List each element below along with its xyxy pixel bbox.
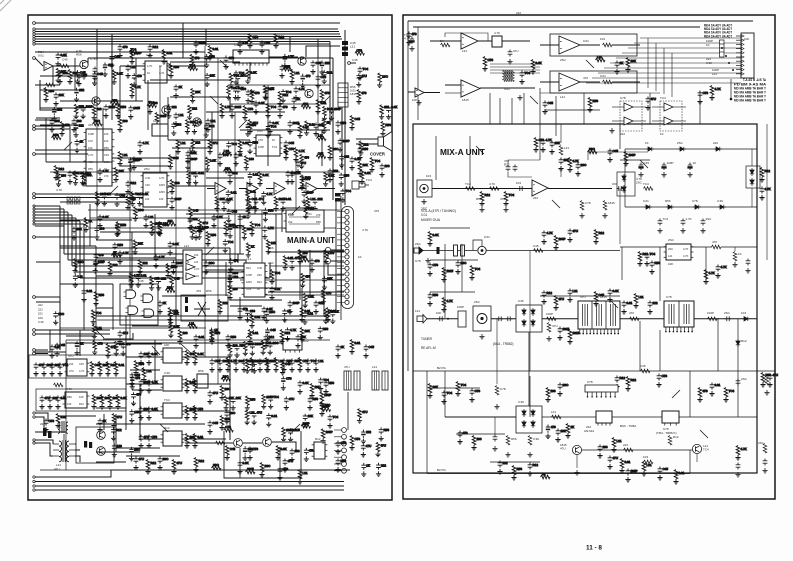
RC network: [441, 298, 452, 313]
wire: [80, 277, 270, 279]
MIX-A UNIT panel border: [403, 15, 775, 499]
RC network: [269, 287, 280, 301]
svg-text:47U: 47U: [139, 457, 145, 461]
diode D7: [718, 205, 726, 209]
RC network: [335, 459, 346, 473]
RC network: [128, 157, 140, 171]
svg-text:1K: 1K: [159, 64, 162, 68]
wire: [620, 159, 650, 161]
svg-text:103: 103: [175, 181, 180, 185]
RC network: [339, 173, 350, 187]
connector CN10: [741, 33, 754, 78]
RC network: [112, 243, 123, 257]
svg-text:3.3K: 3.3K: [217, 215, 223, 219]
wire: [63, 434, 65, 440]
ground: [92, 76, 97, 81]
RC network: [541, 231, 552, 245]
svg-text:1815: 1815: [159, 183, 165, 187]
svg-text:2SC: 2SC: [273, 341, 280, 345]
svg-text:C45: C45: [270, 328, 276, 332]
svg-text:3.3K: 3.3K: [198, 352, 204, 356]
op-amp U3: [247, 183, 258, 195]
capacitor C-in blob: [437, 247, 440, 254]
ground: [680, 228, 685, 233]
wire: [36, 301, 60, 303]
RC network: [171, 261, 183, 275]
svg-text:3.3K: 3.3K: [103, 215, 109, 219]
svg-text:BUF - TR6A: BUF - TR6A: [620, 424, 636, 428]
RC network: [565, 424, 574, 439]
wire: [435, 136, 437, 180]
svg-text:10K: 10K: [561, 429, 566, 433]
RC network: [297, 381, 308, 395]
RC network: [39, 396, 50, 410]
wire: [60, 100, 92, 102]
label: [484, 235, 490, 239]
svg-text:R56: R56: [363, 147, 369, 151]
svg-text:10K: 10K: [305, 329, 310, 333]
svg-text:10K: 10K: [79, 395, 84, 399]
svg-text:R56: R56: [76, 52, 82, 56]
label: [645, 141, 649, 145]
svg-text:10K: 10K: [631, 59, 636, 63]
RC network: [205, 157, 216, 172]
svg-text:L21: L21: [372, 365, 377, 369]
svg-text:2SC: 2SC: [724, 311, 731, 315]
wire: [604, 67, 741, 69]
RC network: [619, 459, 630, 474]
svg-text:4.7K: 4.7K: [267, 226, 273, 230]
RC network: [607, 456, 618, 470]
wire: [40, 89, 84, 91]
RC network: [457, 431, 467, 445]
ground: [507, 59, 512, 64]
svg-text:1K: 1K: [163, 301, 167, 305]
wire: [36, 261, 60, 263]
svg-text:470: 470: [315, 259, 320, 263]
AND gate G2: [143, 294, 153, 302]
wire: [185, 442, 233, 444]
wire: [317, 58, 319, 130]
RC network: [322, 106, 341, 121]
terminal T29: [33, 349, 36, 352]
svg-text:C45: C45: [285, 362, 291, 366]
svg-text:MIXER OUA: MIXER OUA: [421, 218, 441, 222]
wire: [140, 62, 142, 64]
svg-text:C78: C78: [692, 199, 698, 203]
svg-text:3.3K: 3.3K: [391, 105, 397, 109]
svg-text:1815: 1815: [159, 190, 165, 194]
svg-text:47U: 47U: [69, 369, 74, 373]
svg-text:0.01: 0.01: [288, 256, 294, 260]
RC network: [519, 71, 530, 85]
svg-text:COVER: COVER: [370, 152, 385, 157]
RC network: [277, 105, 287, 119]
svg-text:R56: R56: [341, 459, 347, 463]
wire: [170, 61, 240, 63]
resistor R16: [580, 201, 584, 211]
label: [518, 400, 524, 404]
op-amp U12: [559, 36, 580, 54]
terminal T2: [33, 28, 35, 30]
label: [533, 244, 539, 248]
junction: [728, 62, 730, 64]
svg-text:1K: 1K: [706, 43, 710, 47]
svg-text:4.7K: 4.7K: [715, 87, 721, 91]
RC network: [527, 463, 538, 477]
svg-text:C78: C78: [258, 138, 263, 142]
IC IC10: [65, 359, 90, 376]
RC network: [117, 152, 127, 167]
RC network: [300, 74, 311, 88]
svg-text:470: 470: [412, 32, 417, 36]
svg-text:3.3K: 3.3K: [328, 173, 334, 177]
RC network: [427, 293, 438, 307]
resistor R3: [54, 383, 64, 387]
svg-text:R56: R56: [344, 173, 350, 177]
wire: [490, 72, 540, 74]
RC network: [171, 460, 182, 475]
terminal T3: [33, 30, 35, 32]
RC network: [247, 172, 258, 186]
wire: [50, 171, 340, 173]
label: [706, 43, 710, 47]
wire: [413, 26, 700, 28]
IC IC14: [161, 403, 185, 418]
resistor R26: [708, 317, 718, 321]
RC network: [479, 192, 490, 207]
RC network: [245, 69, 256, 84]
wire: [35, 413, 48, 421]
capacitor C8: [658, 219, 663, 226]
label: [362, 228, 368, 232]
wire: [172, 147, 212, 149]
RC network: [177, 330, 187, 345]
terminal T32: [33, 416, 35, 418]
wire: [35, 225, 64, 227]
wire: [182, 23, 184, 58]
RC network: [47, 396, 57, 410]
RC network: [168, 311, 179, 325]
inductor L-T upper: [58, 421, 68, 433]
wire: [206, 111, 285, 113]
svg-text:MAIN-A UNIT: MAIN-A UNIT: [287, 235, 336, 245]
wire: [699, 93, 701, 124]
RC network: [289, 449, 299, 463]
svg-text:L21: L21: [617, 439, 622, 443]
wire: [66, 339, 330, 341]
wire: [182, 383, 230, 385]
IC IC11: [63, 392, 90, 408]
svg-text:47U: 47U: [177, 461, 183, 465]
wire: [335, 200, 337, 312]
terminal T12: [33, 128, 36, 131]
RC network: [575, 163, 587, 177]
resistor R19: [712, 245, 722, 249]
wire: [696, 454, 698, 462]
wire: [96, 407, 126, 409]
IC IC15: [161, 431, 185, 446]
ground: [479, 334, 484, 339]
svg-text:222: 222: [40, 422, 45, 426]
RC network: [709, 383, 720, 397]
svg-text:222: 222: [363, 142, 368, 146]
svg-text:470: 470: [136, 393, 141, 397]
RC network: [357, 409, 368, 424]
RC network: [297, 358, 308, 373]
RC network: [166, 104, 177, 118]
svg-text:0.01: 0.01: [243, 41, 249, 45]
svg-text:L21: L21: [647, 463, 652, 467]
svg-text:C78: C78: [587, 380, 593, 384]
svg-text:222: 222: [344, 155, 349, 159]
svg-text:100P: 100P: [199, 41, 206, 45]
wire: [35, 125, 70, 127]
RC network: [207, 391, 218, 405]
wire: [75, 218, 77, 272]
RC network: [188, 64, 198, 71]
wire: [120, 165, 170, 167]
RC network: [72, 259, 84, 274]
label: [513, 49, 519, 53]
svg-text:3.3K: 3.3K: [210, 158, 216, 162]
label: [184, 244, 189, 248]
RC network: [166, 219, 176, 226]
wire: [691, 246, 712, 248]
transistor pair Q-PP: [194, 302, 210, 316]
svg-text:10K: 10K: [173, 311, 178, 315]
svg-text:4.7K: 4.7K: [741, 447, 747, 451]
capacitor C2 electrolytic: [410, 37, 414, 45]
RC network: [125, 181, 136, 195]
label: [76, 49, 82, 56]
wire: [424, 92, 440, 94]
ground: [638, 172, 643, 177]
wire: [289, 223, 320, 225]
svg-text:222: 222: [288, 220, 293, 224]
label: [66, 387, 72, 391]
svg-text:103: 103: [233, 344, 238, 348]
RC network: [185, 156, 197, 170]
terminal T27: [33, 329, 36, 332]
RC network: [185, 120, 202, 135]
wire: [126, 383, 163, 385]
terminal T31: [33, 412, 35, 414]
terminal T30: [33, 352, 36, 355]
wire: [430, 40, 461, 42]
wire: [40, 75, 95, 77]
RC network: [97, 419, 106, 433]
RC network: [376, 463, 386, 477]
RC network: [105, 362, 116, 377]
svg-text:10K: 10K: [220, 197, 225, 201]
diode D9: [622, 185, 626, 193]
svg-text:C78: C78: [283, 467, 289, 471]
RC network: [611, 438, 621, 453]
RC network: [97, 215, 108, 229]
wire: [182, 356, 230, 358]
capacitor C15: [438, 316, 445, 321]
svg-text:1K: 1K: [660, 132, 664, 136]
label: [38, 303, 43, 307]
svg-text:R56: R56: [313, 397, 319, 401]
wire: [35, 223, 84, 225]
label: [660, 132, 664, 136]
RC network: [545, 388, 555, 403]
wire: [489, 93, 491, 124]
wire: [612, 183, 617, 185]
RC network: [52, 133, 62, 140]
RC network: [169, 197, 181, 211]
svg-text:C78: C78: [488, 58, 494, 62]
svg-text:C45: C45: [62, 57, 68, 61]
wire: [628, 47, 741, 49]
svg-text:0.01: 0.01: [253, 331, 259, 335]
RC network: [285, 171, 295, 185]
capacitor C5: [506, 165, 511, 172]
ground: [546, 336, 551, 341]
wire: [95, 246, 97, 330]
wire: [529, 251, 531, 291]
wire: [309, 250, 311, 296]
wire: [620, 246, 666, 248]
wire: [224, 431, 301, 478]
svg-text:103: 103: [516, 181, 521, 185]
junction: [730, 98, 733, 101]
wire: [633, 106, 646, 108]
svg-text:4.7K: 4.7K: [134, 273, 140, 277]
wire: [46, 161, 112, 163]
terminal T7: [33, 40, 35, 42]
RC network: [318, 378, 329, 392]
wire: [582, 449, 692, 451]
RC network: [129, 48, 139, 55]
svg-text:4.7K: 4.7K: [546, 138, 552, 142]
svg-text:3.3K: 3.3K: [145, 176, 151, 180]
svg-text:4.7K: 4.7K: [494, 31, 500, 35]
svg-text:C78: C78: [356, 48, 362, 52]
RC network: [141, 368, 151, 383]
svg-text:222: 222: [172, 105, 177, 109]
wire: [119, 66, 121, 118]
wire: [542, 416, 757, 418]
RC network: [192, 351, 203, 366]
label: [560, 95, 565, 99]
wire: [508, 160, 540, 164]
wire: [269, 56, 298, 58]
svg-text:222: 222: [653, 301, 658, 305]
svg-text:2SC: 2SC: [668, 238, 675, 242]
svg-text:1K: 1K: [251, 90, 255, 94]
terminal T37: [33, 485, 35, 487]
capacitor C13 electrolytic: [688, 163, 692, 171]
svg-text:3.3K: 3.3K: [250, 71, 256, 75]
RC network: [282, 459, 293, 473]
wire: [499, 98, 501, 124]
label: [620, 132, 625, 136]
RC network: [193, 458, 204, 473]
RC network: [211, 215, 222, 229]
buffer U6: [186, 254, 195, 261]
RC network: [169, 180, 179, 195]
RC network: [567, 229, 578, 243]
label: [686, 217, 692, 221]
diode D20: [531, 409, 535, 417]
RC network: [338, 138, 350, 152]
svg-text:C45: C45: [193, 208, 199, 212]
RC network: [204, 261, 216, 275]
svg-text:1K: 1K: [327, 121, 331, 125]
wire: [67, 212, 69, 260]
svg-text:0.01: 0.01: [266, 341, 272, 345]
wire: [268, 251, 344, 253]
svg-text:100P: 100P: [154, 222, 161, 226]
label: [350, 85, 357, 96]
resistor R1: [60, 64, 70, 68]
RC network: [55, 414, 66, 429]
label: [489, 182, 495, 186]
label: [560, 58, 567, 62]
svg-text:0.01: 0.01: [625, 460, 631, 464]
svg-text:4.7K: 4.7K: [194, 267, 200, 271]
RC network: [625, 58, 635, 73]
svg-text:C78: C78: [229, 56, 235, 60]
wire: [49, 330, 51, 352]
RC network: [356, 90, 366, 105]
label: [643, 455, 648, 459]
ground: [745, 268, 750, 273]
RC network: [53, 93, 63, 107]
wire: [298, 188, 306, 190]
svg-text:C45: C45: [138, 279, 144, 283]
terminal T13: [33, 153, 36, 156]
svg-text:2SC: 2SC: [58, 312, 65, 316]
RC network: [113, 362, 124, 377]
RC network: [217, 153, 228, 167]
svg-text:3.3K: 3.3K: [173, 242, 179, 246]
svg-text:VOL A (4TR / TUNING): VOL A (4TR / TUNING): [421, 209, 456, 213]
wire: [112, 284, 114, 330]
label: [62, 54, 68, 61]
RC network: [247, 447, 258, 461]
RC network: [157, 222, 168, 237]
wire: [751, 149, 753, 166]
wire: [529, 290, 531, 371]
svg-text:C78: C78: [253, 35, 259, 39]
svg-text:470: 470: [712, 240, 717, 244]
svg-text:47U: 47U: [303, 102, 309, 106]
RC network: [316, 152, 326, 159]
svg-text:222: 222: [381, 463, 386, 467]
RC network: [282, 54, 293, 68]
label: [706, 57, 711, 61]
svg-text:R12: R12: [327, 71, 333, 75]
svg-text:2SC: 2SC: [257, 359, 264, 363]
terminal T1: [33, 22, 36, 25]
RC network: [94, 226, 104, 240]
wire: [528, 332, 530, 406]
svg-text:L21: L21: [250, 411, 255, 415]
svg-text:R56: R56: [250, 397, 256, 401]
svg-text:470: 470: [305, 275, 310, 279]
RC network: [261, 307, 272, 321]
wire: [60, 245, 96, 247]
svg-text:470: 470: [255, 91, 260, 95]
wire: [205, 29, 207, 46]
svg-text:3.3K: 3.3K: [269, 359, 275, 363]
RC network: [74, 88, 85, 102]
RC network: [130, 375, 141, 389]
